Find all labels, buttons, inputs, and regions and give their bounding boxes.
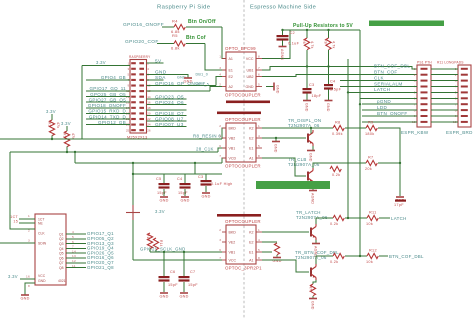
wire GPIO20_COF to R5 — [157, 43, 174, 45]
IC U1 74HC165 box — [35, 214, 66, 285]
wire PS1 pin 6 to R11 pin 6 — [431, 97, 458, 99]
junction R7a rail — [327, 29, 329, 31]
svg-text:NE: NE — [38, 221, 43, 225]
wire 3.3V to IC1 VCC — [20, 278, 35, 280]
wire IC1 Q7 to net — [66, 262, 86, 264]
svg-text:BTN_COF_DBL: BTN_COF_DBL — [374, 64, 410, 69]
svg-text:Btn On/Off: Btn On/Off — [188, 19, 216, 25]
ground cap net — [395, 197, 404, 203]
green bar 5V supply — [369, 21, 444, 27]
svg-text:0.1uF: 0.1uF — [288, 42, 300, 46]
wire net GPIO4_GB to SV1 pin — [86, 79, 130, 81]
resistor R9 — [366, 125, 377, 130]
wire to IC1 pin CT — [19, 218, 35, 220]
capacitor C7 — [179, 276, 190, 282]
svg-text:GND: GND — [246, 85, 254, 89]
wire cap rail horizontal — [133, 173, 222, 175]
wire net row B across left sheet — [10, 151, 218, 153]
wire OK3 E1 stub — [262, 251, 272, 253]
svg-text:E2: E2 — [249, 240, 253, 244]
svg-text:3.3V: 3.3V — [61, 121, 71, 126]
svg-text:Espresso Machine Side: Espresso Machine Side — [250, 5, 316, 11]
svg-text:R2: R2 — [48, 122, 52, 127]
wire net GPIO18_ONOFF to SV1 pin — [86, 107, 130, 109]
wire IC1 GND pin to ground — [25, 283, 35, 295]
transistor T2 — [308, 168, 313, 184]
wire to C4 — [184, 174, 186, 183]
svg-text:15pF: 15pF — [168, 283, 178, 287]
wire R11 to LATCH label — [379, 217, 390, 219]
capacitor C2 — [277, 35, 289, 41]
wire rail to C2 — [282, 30, 284, 35]
wire 5V pull-up rail — [283, 29, 360, 31]
svg-text:VB1: VB1 — [229, 146, 236, 150]
wire PS1 pin 10 to R11 pin 10 — [431, 121, 458, 123]
svg-text:RASPBERRY: RASPBERRY — [129, 55, 151, 59]
svg-text:C3: C3 — [309, 83, 314, 87]
svg-text:C4: C4 — [330, 80, 335, 84]
svg-text:5: 5 — [258, 83, 260, 87]
svg-text:A2: A2 — [229, 85, 233, 89]
resistor R12 — [367, 253, 378, 258]
svg-text:BKD: BKD — [229, 126, 237, 130]
section divider dashed line — [243, 0, 245, 318]
svg-text:5: 5 — [258, 248, 260, 252]
capacitor C3 — [201, 180, 212, 186]
svg-text:3: 3 — [219, 238, 221, 242]
svg-text:Q3: Q3 — [59, 242, 64, 246]
svg-text:3.3V: 3.3V — [96, 60, 106, 65]
resistor R14 — [153, 238, 158, 250]
junction R6 rail — [306, 29, 308, 31]
wire net LATCH into PS1 — [348, 91, 417, 93]
junction C2 rail — [281, 29, 283, 31]
wire C8 to ground — [306, 94, 308, 100]
wire IC1 Q2 to net — [66, 238, 86, 240]
wire row B to OK2 pin 2 — [218, 148, 226, 152]
svg-text:7: 7 — [72, 245, 74, 249]
wire OK2 E2 to T1 base — [262, 137, 306, 139]
svg-text:Raspberry Pi Side: Raspberry Pi Side — [157, 5, 211, 11]
ground tap on T1 base row (rotated) — [272, 138, 280, 153]
wire 3.3V to R3 — [66, 126, 68, 131]
svg-text:5: 5 — [258, 144, 260, 148]
svg-text:20: 20 — [147, 112, 151, 116]
wire GPIO20 to OK1 pin A2 — [210, 87, 222, 91]
svg-text:OPTOCOUPLER: OPTOCOUPLER — [225, 93, 261, 98]
svg-text:15pF: 15pF — [157, 191, 167, 195]
thick bar separator 2 — [217, 112, 261, 115]
wire net BTN_ONOFF into PS1 — [362, 115, 417, 117]
svg-text:11: 11 — [72, 264, 76, 268]
wire OK1 UB1 to PS1 row1 — [262, 67, 417, 71]
svg-text:GND: GND — [326, 103, 330, 112]
svg-text:R13: R13 — [146, 234, 150, 241]
svg-text:BKD: BKD — [229, 230, 237, 234]
svg-text:GPIO24_Q6: GPIO24_Q6 — [155, 100, 184, 105]
wire OK1 GND pin to ground — [266, 86, 274, 88]
wire R9 to vertical net — [378, 128, 400, 196]
svg-text:AGND: AGND — [311, 193, 315, 204]
ground at OK1 GND (rotated) — [274, 83, 280, 94]
junction R6 net — [306, 65, 308, 67]
wire down to C7 — [183, 252, 185, 276]
svg-text:T2N2907A_06: T2N2907A_06 — [288, 123, 320, 128]
wire vertical bus right of divider — [359, 30, 361, 256]
svg-text:3.5pF: 3.5pF — [330, 88, 342, 92]
svg-text:E2: E2 — [249, 136, 253, 140]
svg-text:26: 26 — [147, 128, 151, 132]
svg-text:A1: A1 — [249, 156, 253, 160]
resistor R7a — [326, 38, 331, 50]
junction row C vertical — [132, 162, 134, 164]
svg-text:18pF: 18pF — [312, 94, 322, 98]
svg-text:GND: GND — [159, 199, 168, 203]
wire T4 collector to R12 row — [316, 256, 333, 264]
wire OK3 A1 to T4 base — [262, 260, 309, 272]
svg-text:3.3V: 3.3V — [155, 209, 165, 214]
capacitor C9 — [324, 84, 333, 90]
svg-text:3: 3 — [219, 134, 221, 138]
svg-text:R3: R3 — [63, 133, 67, 138]
ground below C9 (rotated) — [325, 101, 333, 112]
svg-text:4021: 4021 — [58, 279, 66, 283]
connector SV1 Raspberry Pi GPIO header 2x13 — [126, 55, 151, 140]
svg-text:VCC: VCC — [229, 258, 237, 262]
wire T4 emitter down — [313, 280, 316, 284]
wire T2 collector to R10 — [313, 163, 348, 168]
wire R4 to net Btn On/Off — [186, 26, 222, 28]
svg-text:25: 25 — [126, 128, 130, 132]
svg-text:3: 3 — [28, 239, 30, 243]
svg-text:14: 14 — [147, 95, 151, 99]
wire C7 to ground — [183, 282, 185, 292]
svg-text:47k: 47k — [71, 133, 75, 139]
resistor R8 — [333, 125, 344, 130]
svg-text:6: 6 — [258, 73, 260, 77]
svg-text:12: 12 — [72, 259, 76, 263]
svg-text:GND: GND — [180, 199, 189, 203]
svg-text:6: 6 — [219, 144, 221, 148]
svg-text:15: 15 — [13, 220, 18, 224]
resistor R15 — [274, 243, 279, 255]
svg-text:VB1: VB1 — [229, 250, 236, 254]
wire 3.3V to SV1 pin 1 — [82, 65, 130, 67]
svg-text:R12: R12 — [369, 249, 377, 253]
resistor R11 — [367, 215, 378, 220]
svg-text:7: 7 — [258, 66, 260, 70]
wire to IC1 pin SDIN — [0, 242, 35, 244]
svg-text:VCC: VCC — [38, 274, 46, 278]
wire BTN_COF_DBL down to C9 — [328, 50, 330, 84]
junction pGND bus — [359, 103, 361, 105]
svg-text:A1: A1 — [249, 258, 253, 262]
green bar net highlight — [256, 181, 330, 189]
wire C5 to ground — [163, 189, 165, 196]
ground symbol SV1 — [183, 78, 192, 84]
thick bar separator 1 — [226, 101, 270, 104]
wire SV1 pin row 5V — [147, 62, 164, 64]
svg-text:GND: GND — [309, 153, 313, 162]
wire net row C across left sheet — [75, 162, 222, 164]
wire PS1 pin 2 to R11 pin 2 — [431, 74, 458, 76]
svg-text:R9: R9 — [368, 121, 373, 125]
svg-text:C3: C3 — [198, 175, 203, 179]
svg-text:VB2: VB2 — [229, 136, 236, 140]
svg-text:R11: R11 — [369, 211, 377, 215]
svg-text:VCC: VCC — [246, 57, 254, 61]
connector R11 LONGPADS — [437, 61, 471, 128]
wire OK2 A1 to T2 base — [262, 158, 306, 176]
svg-text:GND: GND — [201, 195, 210, 199]
svg-text:7: 7 — [219, 154, 221, 158]
wire SV1 pin row GPIO07_U3 — [147, 126, 187, 128]
resistor R10 — [330, 166, 341, 171]
wire 3.3V vertical bus — [81, 66, 83, 140]
svg-text:VCD: VCD — [229, 156, 237, 160]
wire PS1 pin 8 to R11 pin 8 — [431, 109, 458, 111]
ground below C4 — [180, 197, 189, 203]
wire OK1 UB2 to PS1 row2 — [262, 75, 417, 77]
junction C6 — [163, 251, 165, 253]
wire row C drop to cap rail — [194, 163, 196, 174]
capacitor C6 — [159, 276, 170, 282]
svg-text:E1: E1 — [249, 250, 253, 254]
svg-text:GND: GND — [38, 279, 46, 283]
svg-text:PS1 PTH: PS1 PTH — [417, 61, 432, 65]
wire to R7 — [348, 162, 366, 164]
svg-text:DB1_0: DB1_0 — [196, 73, 209, 77]
junction row B/C — [74, 151, 76, 153]
resistor R12a — [333, 253, 344, 258]
wire net GPIO14_TXD_D to SV1 pin — [86, 118, 130, 120]
wire net GPIO27_GB_Q5 to SV1 pin — [86, 101, 130, 103]
svg-text:14: 14 — [72, 249, 76, 253]
svg-text:R8: R8 — [324, 39, 328, 44]
optocoupler OK3 box — [219, 225, 262, 264]
wire row C to OK2 pin 4 — [222, 158, 226, 163]
svg-text:15pF: 15pF — [178, 191, 188, 195]
junction R7a net — [327, 65, 329, 67]
svg-text:1: 1 — [28, 214, 30, 218]
wire net CLK into PS1 — [340, 80, 417, 82]
svg-text:GPIO08_U7: GPIO08_U7 — [155, 116, 184, 121]
svg-text:4: 4 — [258, 238, 260, 242]
svg-text:GND: GND — [20, 297, 29, 301]
svg-text:2: 2 — [28, 229, 30, 233]
wire IC1 Q8 to net — [66, 267, 86, 269]
wire R8 to R9 — [345, 127, 366, 129]
svg-text:GPIO21_SCLK_GND: GPIO21_SCLK_GND — [140, 247, 186, 252]
svg-text:4.7k: 4.7k — [332, 41, 336, 49]
svg-text:OPTO_BPC99: OPTO_BPC99 — [225, 46, 256, 51]
wire BTN_COF down to C8 — [306, 50, 308, 88]
wire to R12 — [345, 255, 367, 257]
wire T3 emitter down — [315, 240, 317, 243]
svg-text:1CT: 1CT — [10, 215, 18, 219]
wire IC1 Q1 to net — [66, 233, 86, 235]
svg-text:Q1: Q1 — [59, 232, 64, 236]
svg-text:K2: K2 — [249, 230, 253, 234]
ground below C2 (rotated) — [279, 47, 287, 61]
svg-text:GPIO20_COF: GPIO20_COF — [125, 39, 159, 45]
wire SV1 pin row GPIO18_Q7 — [147, 115, 187, 117]
svg-text:R6: R6 — [302, 39, 306, 44]
svg-text:BTN_COF_DBL: BTN_COF_DBL — [389, 254, 424, 259]
wire Btn Cof down to OK1 pin E1 — [205, 44, 226, 71]
wire net GPIO15_RXD_D to SV1 pin — [86, 112, 130, 114]
svg-text:GPIO16_ONOFF: GPIO16_ONOFF — [123, 22, 164, 28]
resistor R11a — [333, 215, 344, 220]
wire clock row — [150, 251, 222, 253]
svg-text:0.2k: 0.2k — [330, 222, 338, 226]
wire OK3 K2 to T3 base — [262, 231, 309, 233]
svg-text:R7: R7 — [368, 156, 373, 160]
svg-text:OPTOCOUPLER: OPTOCOUPLER — [225, 164, 261, 169]
svg-text:pGND: pGND — [377, 99, 391, 104]
wire PS1 pin 9 to R11 pin 9 — [431, 115, 458, 117]
svg-text:1: 1 — [414, 67, 416, 71]
resistor R3 — [64, 131, 69, 147]
svg-text:BTN_COF: BTN_COF — [374, 70, 398, 75]
wire to C5 — [163, 174, 165, 183]
transistor T3 — [311, 224, 316, 240]
crystal Q1 — [126, 205, 140, 220]
wire net LDD into PS1 — [362, 109, 417, 111]
svg-text:CLK: CLK — [38, 231, 45, 235]
svg-text:2: 2 — [414, 73, 416, 77]
svg-text:C7: C7 — [190, 270, 195, 274]
wire SV1 pin row stub — [147, 109, 187, 111]
thick bar separator 3 — [217, 214, 261, 217]
svg-text:GPIO18_Q7: GPIO18_Q7 — [155, 111, 184, 116]
svg-text:R8: R8 — [335, 121, 340, 125]
resistor R16 — [310, 284, 315, 296]
svg-text:R4: R4 — [172, 19, 178, 24]
transistor T1 — [308, 130, 313, 146]
wire SV1 pin row SDA — [147, 79, 164, 81]
wire net BTN_COF_DBL into PS1 — [416, 68, 418, 70]
wire R2 to net — [51, 136, 53, 139]
wire net row A across left sheet — [0, 138, 222, 140]
wire down to C6 — [163, 252, 165, 276]
svg-text:0.39k: 0.39k — [332, 132, 343, 136]
svg-text:A1: A1 — [229, 57, 233, 61]
wire SV1 pin row GPIO23_Q5 — [147, 98, 187, 100]
svg-text:SERIALALM: SERIALALM — [374, 81, 403, 86]
junction LATCH bus — [347, 91, 349, 93]
resistor R4 — [174, 24, 185, 29]
svg-text:Q8: Q8 — [59, 266, 64, 270]
svg-text:3.3V: 3.3V — [46, 109, 56, 114]
svg-text:GND: GND — [179, 295, 188, 299]
ground below T2 (rotated) — [309, 191, 317, 205]
optocoupler OK1 box — [219, 52, 262, 91]
resistor R6 — [304, 38, 309, 50]
capacitor C4 — [180, 183, 191, 189]
svg-text:16: 16 — [147, 100, 151, 104]
svg-text:Btn Cof: Btn Cof — [186, 35, 206, 41]
wire T2 emitter to ground — [312, 184, 314, 190]
wire SV1 pin row GPIO08_U7 — [147, 120, 187, 122]
svg-text:7: 7 — [219, 256, 221, 260]
wire PS1 pin 5 to R11 pin 5 — [431, 91, 458, 93]
resistor R7 — [366, 160, 377, 165]
svg-text:Pull-Up Resistors to 5V: Pull-Up Resistors to 5V — [293, 23, 353, 29]
wire to IC1 pin NE — [19, 222, 35, 224]
wire net pGND into PS1 — [362, 103, 417, 105]
resistor R2 — [49, 120, 54, 136]
svg-text:GND: GND — [276, 85, 280, 94]
junction cap rail — [132, 173, 134, 175]
wire net BTN_COF into PS1 — [416, 74, 418, 76]
svg-text:LATCH: LATCH — [374, 87, 390, 92]
wire R5 to net Btn Cof — [186, 43, 205, 45]
svg-text:OPTOCOUPLER: OPTOCOUPLER — [225, 117, 261, 122]
wire OK1 VCC up to 5V rail — [262, 30, 290, 59]
svg-text:5: 5 — [72, 235, 74, 239]
ground below C8 (rotated) — [303, 101, 311, 112]
svg-text:LDD: LDD — [377, 105, 387, 110]
svg-text:UB2: UB2 — [247, 75, 254, 79]
wire bottom row to OK3 left pin 7 — [133, 259, 222, 261]
junction R7 vertical — [399, 162, 401, 164]
svg-text:0.2k: 0.2k — [332, 173, 340, 177]
svg-text:BTN_ONOFF: BTN_ONOFF — [377, 111, 408, 116]
wire bus to R11 — [348, 217, 367, 219]
resistor R13 — [147, 233, 152, 249]
svg-text:C4: C4 — [177, 177, 182, 181]
junction R12 bus — [359, 255, 361, 257]
wire 3.3V to R2 — [51, 114, 53, 120]
junction row C cap rail drop — [194, 162, 196, 164]
svg-text:4: 4 — [258, 134, 260, 138]
svg-text:SDIN: SDIN — [38, 241, 47, 245]
svg-text:Q4: Q4 — [59, 247, 64, 251]
ground below IC1 — [20, 295, 29, 301]
ground below T1 (rotated) — [307, 151, 315, 162]
svg-text:R8_RESIN 6: R8_RESIN 6 — [193, 134, 221, 139]
wire T1 collector up to row — [310, 128, 312, 134]
svg-text:E1: E1 — [249, 146, 253, 150]
svg-text:R5: R5 — [172, 33, 178, 38]
svg-text:6.8k: 6.8k — [171, 46, 180, 51]
svg-text:0.1uF High: 0.1uF High — [211, 182, 233, 186]
svg-text:8: 8 — [258, 256, 260, 260]
svg-text:UB1: UB1 — [247, 68, 254, 72]
wire row B drop to row C — [74, 152, 76, 163]
svg-text:1: 1 — [219, 55, 221, 59]
ground below T4 (rotated) — [309, 299, 317, 310]
wire rail to R7a — [328, 30, 330, 38]
svg-text:LATCH: LATCH — [391, 216, 407, 221]
svg-text:SDA: SDA — [155, 75, 166, 80]
ground below C5 — [159, 197, 168, 203]
wire OK2 K2 row to R8 — [262, 127, 333, 129]
svg-text:Q5: Q5 — [59, 252, 64, 256]
capacitor C8 — [303, 88, 312, 94]
svg-text:OPTOC_3PR2P1: OPTOC_3PR2P1 — [225, 266, 262, 271]
wire net PS1 pin into PS1 — [362, 121, 417, 123]
wire vertical bus LATCH — [347, 59, 349, 218]
svg-text:GPIO23_Q5: GPIO23_Q5 — [155, 94, 184, 99]
svg-text:K2: K2 — [249, 126, 253, 130]
svg-text:13: 13 — [72, 254, 76, 258]
svg-text:10k: 10k — [366, 260, 373, 264]
wire net PS1 pin into PS1 — [360, 97, 417, 99]
svg-text:ESPR_BRD: ESPR_BRD — [446, 130, 473, 135]
svg-text:3.3V: 3.3V — [8, 274, 18, 279]
